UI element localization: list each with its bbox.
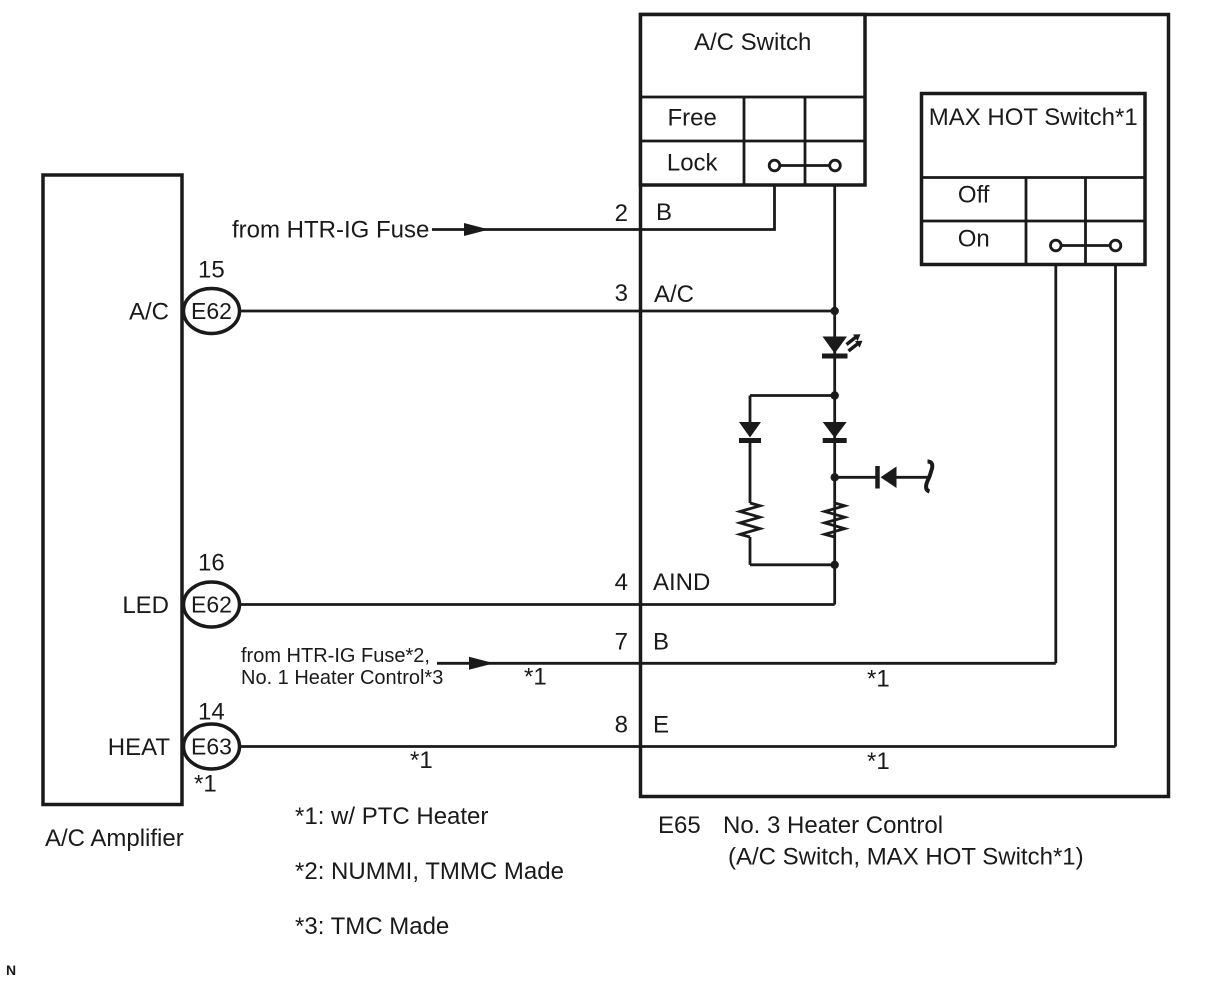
wire pin3 A/C (E62-15 to E65) [238, 310, 835, 313]
svg-text:A/C Switch: A/C Switch [694, 29, 811, 56]
svg-text:E: E [653, 712, 669, 739]
LED indicator [822, 334, 863, 356]
wire bottom branch [750, 563, 835, 566]
connector E62 pin 15 [184, 289, 240, 334]
connector E62 pin 16 [184, 582, 240, 627]
svg-text:Lock: Lock [667, 150, 719, 177]
diode D3 (pointing left) [878, 466, 897, 489]
node junction top branch [831, 391, 839, 399]
label from HTR-IG Fuse*2, No.1 Heater Control*3 [241, 645, 443, 689]
arrow on pin2 wire [464, 223, 489, 236]
svg-text:from HTR-IG Fuse*2,: from HTR-IG Fuse*2, [241, 645, 430, 667]
wire break squiggle [926, 462, 932, 492]
svg-text:E65: E65 [658, 812, 701, 839]
svg-text:B: B [653, 629, 669, 656]
main vertical wire from A/C switch [833, 185, 836, 605]
svg-text:N: N [6, 962, 16, 978]
svg-text:8: 8 [615, 712, 628, 739]
connector E63 pin 14 [184, 724, 240, 769]
svg-text:*1: *1 [524, 664, 547, 691]
svg-text:from HTR-IG Fuse: from HTR-IG Fuse [232, 217, 429, 244]
svg-text:14: 14 [198, 699, 225, 726]
svg-text:Free: Free [668, 105, 717, 132]
MAX HOT Switch table box [922, 94, 1146, 265]
svg-text:*3: TMC Made: *3: TMC Made [295, 913, 449, 940]
diode D1 (left) [739, 422, 761, 441]
arrow on pin7 wire [469, 657, 494, 670]
resistor left [740, 503, 760, 537]
svg-text:*2: NUMMI, TMMC Made: *2: NUMMI, TMMC Made [295, 858, 564, 885]
svg-text:*1: *1 [194, 771, 217, 798]
wire diode D3 to break [897, 476, 929, 479]
svg-text:No. 1 Heater Control*3: No. 1 Heater Control*3 [241, 667, 443, 689]
wire pin7 vertical to MAX HOT switch [1054, 265, 1057, 664]
svg-text:MAX HOT Switch*1: MAX HOT Switch*1 [929, 104, 1138, 131]
node junction pin3 [831, 307, 839, 315]
svg-text:2: 2 [615, 200, 628, 227]
E65 outer box [641, 15, 1169, 797]
svg-text:Off: Off [958, 182, 990, 209]
wire pin8 vertical to MAX HOT switch [1114, 265, 1117, 747]
svg-text:*1: *1 [410, 747, 433, 774]
A/C Amplifier box [43, 175, 182, 805]
svg-text:(A/C Switch, MAX HOT Switch*1): (A/C Switch, MAX HOT Switch*1) [728, 844, 1084, 871]
wire left diode to resistor [749, 441, 752, 503]
wire right branch [835, 476, 877, 479]
diode D2 (middle) [823, 422, 847, 441]
svg-text:LED: LED [122, 592, 169, 619]
wire left branch vertical upper [749, 396, 752, 424]
wire pin4/AIND (E62-16 to E65) [238, 603, 835, 606]
wire top branch to left [750, 394, 835, 397]
wire pin8 E (E63-14 to MAX HOT switch) [238, 745, 1116, 748]
wire pin2 B (from HTR-IG fuse to A/C switch) [432, 185, 775, 230]
svg-text:A/C: A/C [129, 299, 169, 326]
resistor middle [825, 503, 845, 537]
svg-text:AIND: AIND [653, 569, 710, 596]
svg-text:E63: E63 [191, 734, 232, 760]
svg-text:E62: E62 [191, 592, 232, 618]
svg-text:7: 7 [615, 629, 628, 656]
svg-text:*1: *1 [867, 666, 890, 693]
svg-text:HEAT: HEAT [108, 734, 171, 761]
node junction bottom branch [831, 561, 839, 569]
svg-text:*1: w/ PTC Heater: *1: w/ PTC Heater [295, 803, 488, 830]
wire pin7 B (from HTR-IG fuse to MAX HOT switch) [437, 662, 1056, 665]
svg-text:3: 3 [615, 280, 628, 307]
svg-text:E62: E62 [191, 298, 232, 324]
svg-text:16: 16 [198, 550, 225, 577]
A/C switch contact (Lock row) [769, 160, 840, 171]
svg-text:*1: *1 [867, 748, 890, 775]
svg-text:A/C Amplifier: A/C Amplifier [45, 825, 184, 852]
wire left resistor to bottom branch [749, 537, 752, 565]
svg-text:4: 4 [615, 569, 628, 596]
node junction right branch [831, 473, 839, 481]
svg-text:No. 3 Heater Control: No. 3 Heater Control [723, 812, 943, 839]
svg-text:On: On [958, 226, 990, 253]
svg-text:A/C: A/C [654, 281, 694, 308]
MAX HOT switch contact (On row) [1051, 240, 1121, 251]
svg-text:15: 15 [198, 257, 225, 284]
svg-text:B: B [656, 199, 672, 226]
A/C Switch table box [641, 15, 866, 186]
